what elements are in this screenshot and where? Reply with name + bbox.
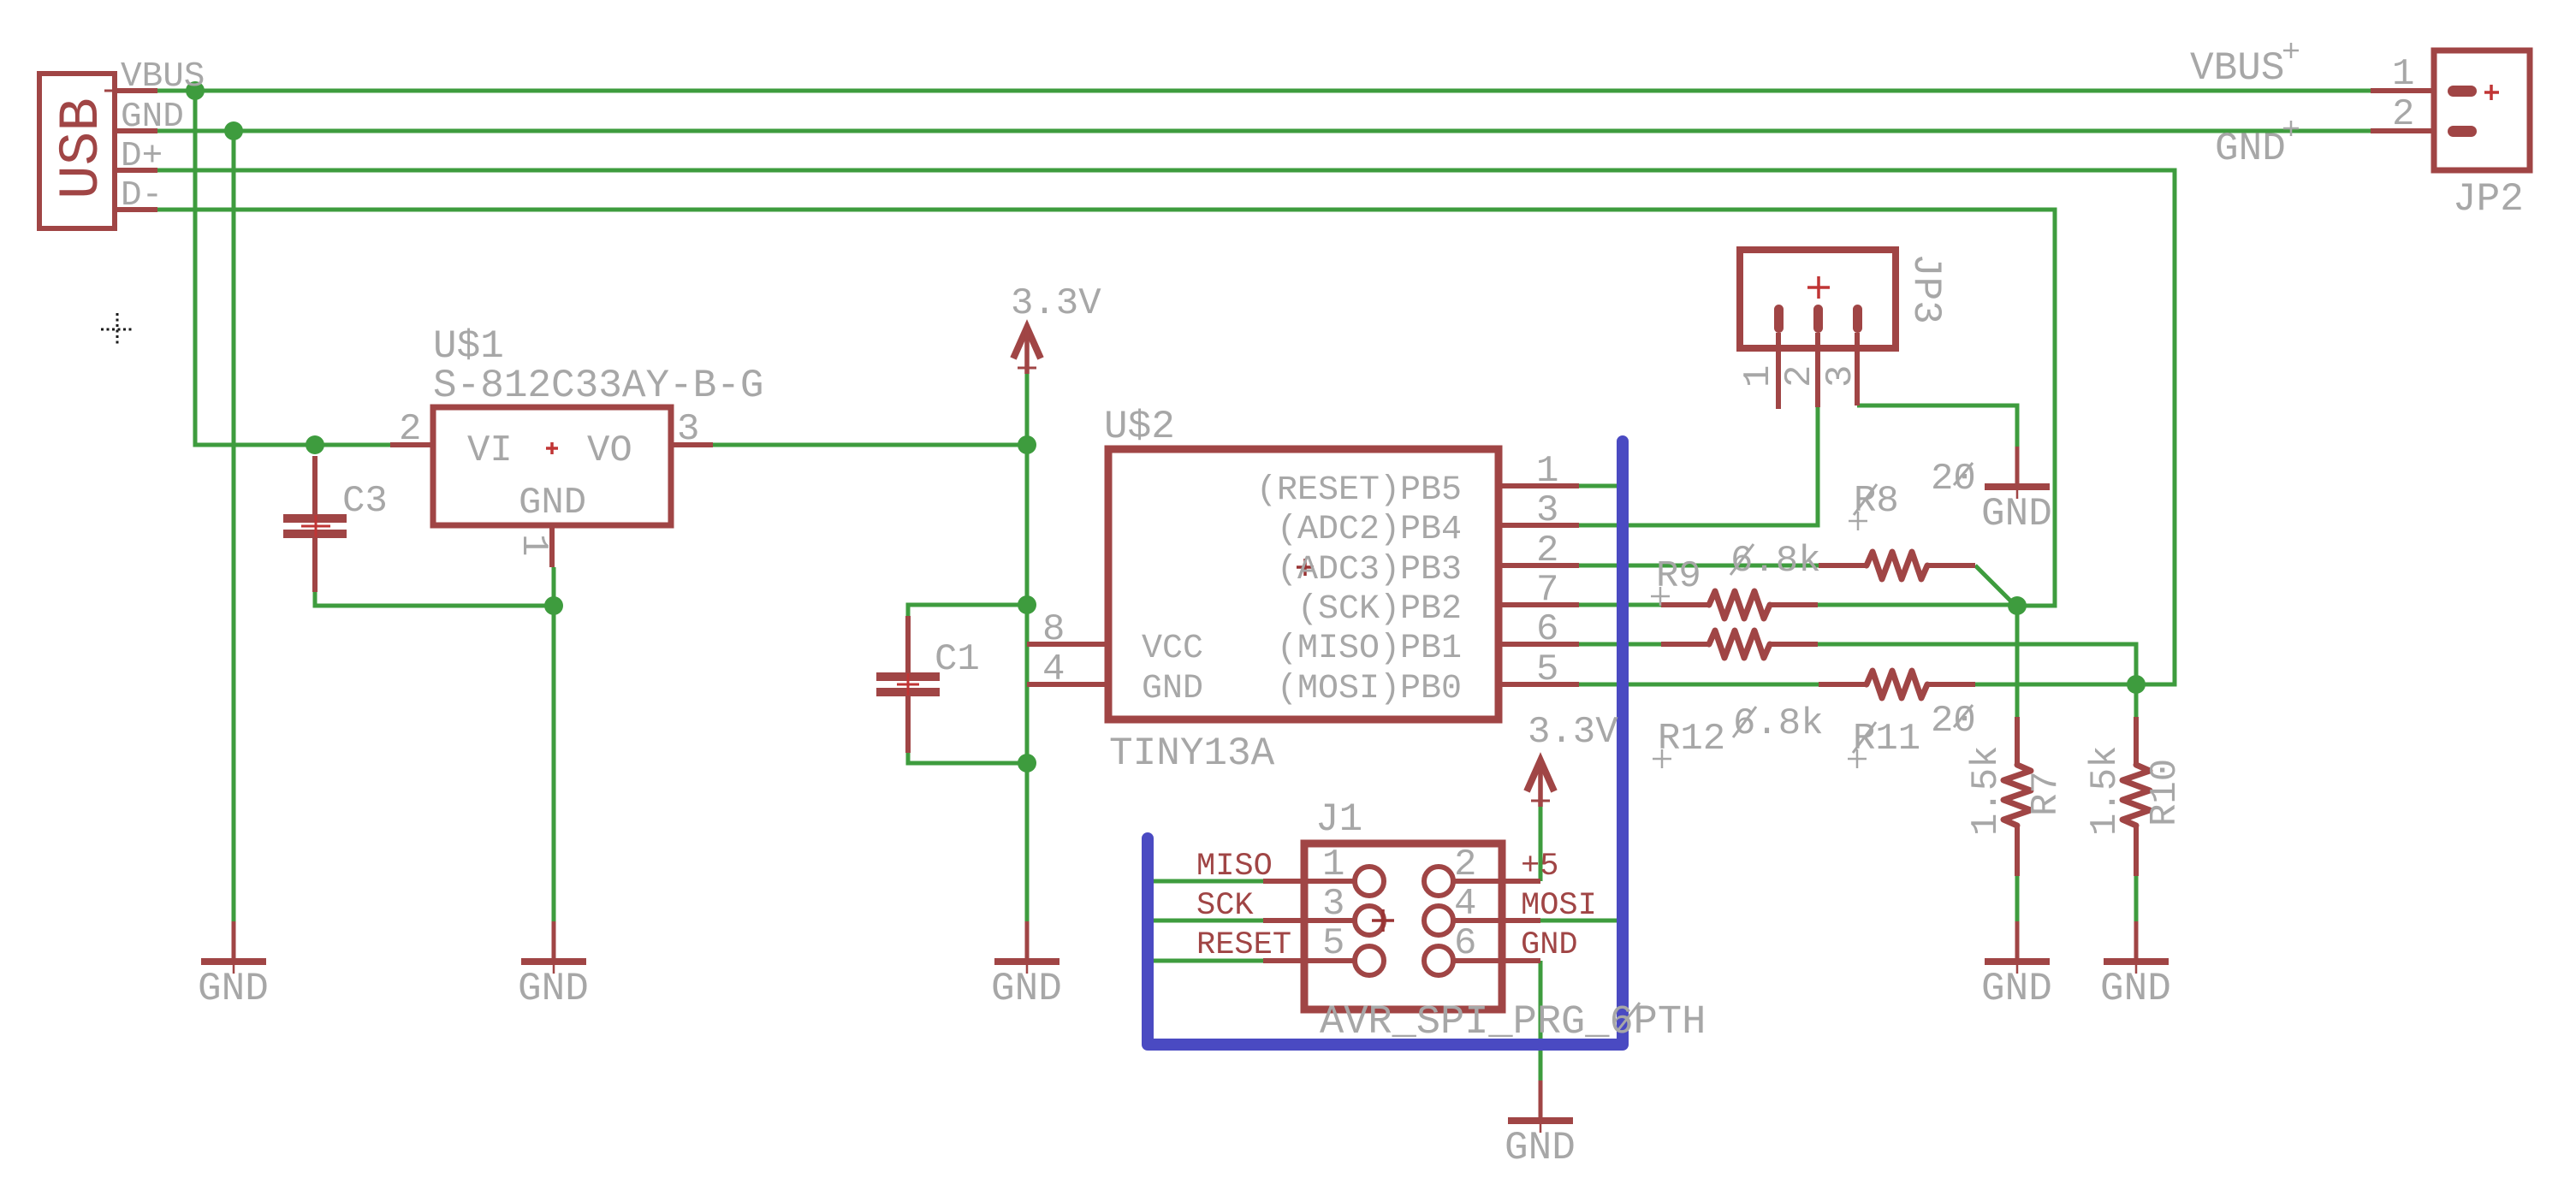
wire R10 top	[2134, 684, 2139, 717]
net label GND	[2215, 121, 2299, 171]
label R10	[2144, 759, 2187, 826]
svg-text:1: 1	[1737, 365, 1780, 388]
USB pin label VBUS	[121, 57, 205, 97]
voltage regulator U$1	[390, 407, 713, 567]
junction C1 top / VCC	[1018, 595, 1036, 614]
label GND (U$1)	[518, 967, 589, 1011]
label C1	[935, 638, 980, 681]
ground symbol (R7)	[1985, 921, 2050, 974]
label GND (U$2)	[991, 967, 1062, 1011]
label R11	[1848, 718, 1920, 768]
label 1.5k (R10)	[2084, 745, 2127, 836]
wire PB2 to R9	[1579, 603, 1662, 607]
svg-text:8: 8	[1042, 608, 1065, 651]
svg-text:(RESET)PB5: (RESET)PB5	[1256, 471, 1462, 510]
svg-text:6: 6	[1454, 922, 1476, 965]
label GND (R10)	[2100, 967, 2171, 1011]
U$1 pin number 2	[399, 408, 421, 451]
junction 3.3V / VO	[1018, 435, 1036, 454]
U$2 pin number 6	[1536, 608, 1558, 651]
svg-text:AVR_SPI_PRG_6PTH: AVR_SPI_PRG_6PTH	[1320, 1000, 1706, 1045]
label R9	[1651, 555, 1701, 606]
net label VBUS	[2190, 43, 2299, 91]
USB pin label D-	[121, 176, 163, 216]
wire R9 out to node	[1818, 603, 2017, 607]
svg-text:S-812C33AY-B-G: S-812C33AY-B-G	[433, 364, 763, 408]
capacitor C1	[876, 616, 940, 753]
U$2 pin text GND	[1142, 670, 1203, 708]
wire J1 MISO from bus	[1151, 879, 1263, 884]
label U$1	[433, 324, 504, 369]
U$1 pin text GND	[519, 482, 586, 524]
svg-text:VCC: VCC	[1142, 630, 1203, 668]
svg-text:GND: GND	[991, 967, 1062, 1011]
wire JP3 pin2 vertical green	[1816, 407, 1820, 525]
label JP2	[2453, 177, 2524, 222]
svg-text:JP2: JP2	[2453, 177, 2524, 222]
svg-text:4: 4	[1454, 883, 1476, 926]
svg-text:R9: R9	[1656, 555, 1701, 598]
wire R10 bottom to GND	[2134, 876, 2139, 921]
svg-text:(ADC3)PB3: (ADC3)PB3	[1277, 551, 1462, 589]
svg-text:1.5k: 1.5k	[2084, 745, 2127, 836]
svg-text:+5: +5	[1521, 849, 1558, 885]
junction C1 bottom / GND	[1018, 754, 1036, 773]
resistor R11 (20)	[1819, 671, 1975, 698]
label S-812C33AY-B-G	[433, 364, 763, 408]
svg-text:GND: GND	[1505, 1126, 1576, 1170]
svg-text:GND: GND	[1142, 670, 1203, 708]
svg-text:2: 2	[2392, 93, 2414, 136]
U$2 pin number 2	[1536, 530, 1558, 572]
wire C3 bottom to U$1 GND net	[315, 573, 554, 606]
svg-text:2: 2	[1536, 530, 1558, 572]
connector JP3	[1740, 250, 1896, 409]
svg-text:4: 4	[1042, 648, 1065, 691]
ground symbol (USB GND drop)	[201, 921, 266, 974]
svg-text:VBUS: VBUS	[2190, 46, 2284, 91]
U$2 pin text VCC	[1142, 630, 1203, 668]
JP2 pin number 1	[2392, 53, 2414, 96]
J1 net label GND	[1521, 927, 1578, 963]
svg-text:C1: C1	[935, 638, 980, 681]
junction R7 / R9 / R8 / D-	[2008, 596, 2027, 615]
connector J1 AVR_SPI_PRG_6PTH	[1263, 844, 1540, 1009]
wire R7 top	[2015, 606, 2020, 717]
label 3.3V (left)	[1011, 282, 1101, 325]
U$1 pin text VI	[467, 429, 513, 472]
label 1.5k (R7)	[1965, 745, 2008, 836]
J1 pin number 3	[1322, 883, 1344, 926]
svg-text:(MOSI)PB0: (MOSI)PB0	[1277, 670, 1462, 708]
U$2 pin number 7	[1536, 569, 1558, 612]
svg-text:6: 6	[1536, 608, 1558, 651]
wire node to D+ vertical	[2136, 683, 2175, 687]
wire PB1 to R12	[1579, 642, 1662, 647]
wire GND drop to GND symbol	[232, 131, 236, 921]
wire R12 out to R10 node	[1818, 644, 2136, 684]
svg-text:U$1: U$1	[433, 324, 504, 369]
U$2 pin text (ADC2)PB4	[1277, 511, 1462, 549]
wire D- from USB right then down to R7/R9 node	[157, 210, 2055, 606]
power symbol 3.3V (left)	[1013, 328, 1041, 374]
wire R11 out to node	[1975, 683, 2136, 687]
wire node jog to D- vertical	[2017, 604, 2056, 608]
wire VBUS drop to U$1 VI	[195, 91, 390, 445]
svg-text:6.8k: 6.8k	[1730, 540, 1821, 583]
junction GND drop	[224, 121, 243, 140]
svg-text:GND: GND	[198, 967, 269, 1011]
svg-text:D+: D+	[121, 137, 163, 176]
wire D+ from USB right then down to R10/R11 node	[157, 170, 2175, 684]
connector JP2	[2371, 50, 2530, 170]
label 6.8k (R9)	[1730, 540, 1821, 583]
J1 net label SCK	[1196, 888, 1254, 924]
label AVR_SPI_PRG_6PTH	[1320, 1000, 1706, 1045]
label GND (R7)	[1981, 967, 2052, 1011]
svg-text:(ADC2)PB4: (ADC2)PB4	[1277, 511, 1462, 549]
svg-text:R7: R7	[2025, 771, 2068, 816]
svg-text:GND: GND	[121, 98, 184, 137]
svg-text:(MISO)PB1: (MISO)PB1	[1277, 630, 1462, 668]
U$1 pin number 3	[677, 408, 699, 451]
svg-text:GND: GND	[1981, 492, 2052, 536]
wire U$1 VO to 3.3V node	[713, 443, 1027, 447]
USB pin label GND	[121, 98, 184, 137]
USB pin label D+	[121, 137, 163, 176]
resistor R7 (1.5k) vertical	[2003, 717, 2031, 876]
JP2 pin number 2	[2392, 93, 2414, 136]
svg-text:20: 20	[1931, 458, 1976, 500]
svg-text:U$2: U$2	[1104, 405, 1175, 449]
wire 3.3V rail down to U$2 VCC/GND and GND symbol	[1025, 374, 1030, 921]
label 3.3V (J1)	[1528, 711, 1618, 754]
label TINY13A	[1109, 731, 1275, 776]
ground symbol (R10)	[2104, 921, 2169, 974]
svg-text:D-: D-	[121, 176, 163, 216]
svg-text:GND: GND	[2215, 127, 2286, 171]
svg-text:1.5k: 1.5k	[1965, 745, 2008, 836]
wire GND horizontal from USB to JP2	[157, 129, 2371, 133]
U$1 pin number 1	[512, 534, 555, 556]
svg-text:3.3V: 3.3V	[1011, 282, 1101, 325]
wire R8 diagonal to D- node	[1975, 565, 2015, 606]
svg-text:VBUS: VBUS	[121, 57, 205, 97]
svg-text:GND: GND	[519, 482, 586, 524]
U$2 pin text (MISO)PB1	[1277, 630, 1462, 668]
bus AVR SPI (blue)	[1148, 441, 1623, 1045]
svg-text:3: 3	[1322, 883, 1344, 926]
resistor R10 (1.5k) vertical	[2122, 717, 2150, 876]
resistor R12 (6.8k)	[1661, 630, 1818, 658]
wire PB0 to R11	[1579, 683, 1819, 687]
svg-text:VO: VO	[587, 429, 632, 472]
svg-text:6.8k: 6.8k	[1733, 702, 1824, 745]
svg-text:RESET: RESET	[1196, 927, 1291, 963]
svg-text:R10: R10	[2144, 759, 2187, 826]
U$2 pin text (ADC3)PB3	[1277, 551, 1462, 589]
wire JP3 pin3 to GND	[1857, 406, 2017, 447]
ground symbol (JP3)	[1985, 447, 2050, 499]
wire J1 RESET from bus	[1151, 959, 1263, 963]
svg-text:3: 3	[1819, 365, 1862, 388]
wire PB5 to bus	[1579, 484, 1619, 488]
junction C3 top	[306, 435, 324, 454]
wire PB4 to JP3 pin2	[1579, 407, 1818, 525]
U$2 pin number 8	[1042, 608, 1065, 651]
U$2 pin text (MOSI)PB0	[1277, 670, 1462, 708]
cursor cross mark	[101, 313, 134, 346]
resistor R9 (6.8k)	[1661, 591, 1818, 619]
microcontroller U$2 TINY13A	[1027, 449, 1579, 719]
U$2 pin number 5	[1536, 648, 1558, 691]
svg-text:GND: GND	[518, 967, 589, 1011]
J1 pin number 6	[1454, 922, 1476, 965]
svg-text:1: 1	[2392, 53, 2414, 96]
wire PB3 to R8	[1579, 564, 1819, 568]
svg-text:TINY13A: TINY13A	[1109, 731, 1275, 776]
svg-text:J1: J1	[1315, 797, 1362, 842]
J1 net label MOSI	[1521, 888, 1597, 924]
J1 pin number 2	[1454, 844, 1476, 886]
label U$2	[1104, 405, 1175, 449]
svg-text:3.3V: 3.3V	[1528, 711, 1618, 754]
label 20 (R8)	[1931, 458, 1976, 500]
J1 net label +5	[1521, 849, 1558, 885]
J1 pin number 5	[1322, 922, 1344, 965]
junction U$1 GND / C3	[544, 596, 563, 615]
U$2 pin text (SCK)PB2	[1297, 590, 1462, 629]
svg-text:(SCK)PB2: (SCK)PB2	[1297, 590, 1462, 629]
label GND (J1)	[1505, 1126, 1576, 1170]
svg-text:3: 3	[1536, 489, 1558, 532]
J1 pin number 4	[1454, 883, 1476, 926]
label C3	[342, 480, 388, 523]
label JP3	[1903, 253, 1948, 324]
svg-text:7: 7	[1536, 569, 1558, 612]
label R8	[1849, 480, 1899, 530]
J1 pin number 1	[1322, 844, 1344, 886]
svg-text:VI: VI	[467, 429, 513, 472]
capacitor C3	[283, 456, 347, 592]
U$2 pin text (RESET)PB5	[1256, 471, 1462, 510]
wire J1 GND down	[1539, 961, 1543, 1080]
svg-text:2: 2	[1454, 844, 1476, 886]
ground symbol (U$1)	[521, 921, 586, 974]
label 20 (R11)	[1931, 700, 1976, 743]
power symbol 3.3V (J1)	[1527, 761, 1554, 807]
resistor R8 (20)	[1819, 552, 1975, 579]
wire R7 bottom to GND	[2015, 876, 2020, 921]
svg-text:2: 2	[1778, 365, 1821, 388]
J1 net label MISO	[1196, 849, 1273, 885]
label GND (JP3)	[1981, 492, 2052, 536]
label GND (USB drop)	[198, 967, 269, 1011]
wire C1 top	[908, 605, 1027, 637]
svg-text:1: 1	[1536, 450, 1558, 493]
label J1	[1315, 797, 1362, 842]
svg-text:1: 1	[1322, 844, 1344, 886]
svg-text:JP3: JP3	[1903, 253, 1948, 324]
ground symbol (U$2/C1)	[994, 921, 1059, 974]
label R7	[2025, 771, 2068, 816]
junction VBUS/U$1	[186, 81, 205, 100]
svg-text:2: 2	[399, 408, 421, 451]
USB connector	[39, 74, 157, 228]
label 6.8k (R12)	[1733, 702, 1824, 745]
wire C1 bottom	[908, 744, 1027, 763]
U$2 pin number 3	[1536, 489, 1558, 532]
svg-text:MOSI: MOSI	[1521, 888, 1597, 924]
svg-text:R12: R12	[1658, 718, 1725, 761]
U$1 pin text VO	[587, 429, 632, 472]
wire U$1 GND pin down to GND symbol	[552, 567, 556, 921]
JP3 pin number 3	[1819, 365, 1862, 388]
wire J1 +5 up to 3.3V arrow	[1539, 807, 1543, 881]
svg-text:5: 5	[1536, 648, 1558, 691]
junction R10 / R11 / R12 / D+	[2127, 675, 2146, 694]
J1 net label RESET	[1196, 927, 1291, 963]
JP3 pin number 2	[1778, 365, 1821, 388]
svg-text:GND: GND	[1981, 967, 2052, 1011]
wire J1 MOSI to bus	[1540, 919, 1619, 923]
svg-text:SCK: SCK	[1196, 888, 1254, 924]
wire VBUS horizontal from USB to JP2	[157, 89, 2371, 93]
U$2 pin number 4	[1042, 648, 1065, 691]
wire J1 SCK from bus	[1151, 919, 1263, 923]
svg-text:1: 1	[512, 534, 555, 556]
svg-text:3: 3	[677, 408, 699, 451]
ground symbol (J1)	[1508, 1080, 1573, 1133]
svg-text:GND: GND	[1521, 927, 1578, 963]
svg-text:USB: USB	[50, 98, 114, 199]
svg-text:C3: C3	[342, 480, 388, 523]
svg-text:20: 20	[1931, 700, 1976, 743]
JP3 pin number 1	[1737, 365, 1780, 388]
svg-text:GND: GND	[2100, 967, 2171, 1011]
U$2 pin number 1	[1536, 450, 1558, 493]
svg-text:5: 5	[1322, 922, 1344, 965]
label R12	[1653, 718, 1725, 768]
svg-text:MISO: MISO	[1196, 849, 1273, 885]
